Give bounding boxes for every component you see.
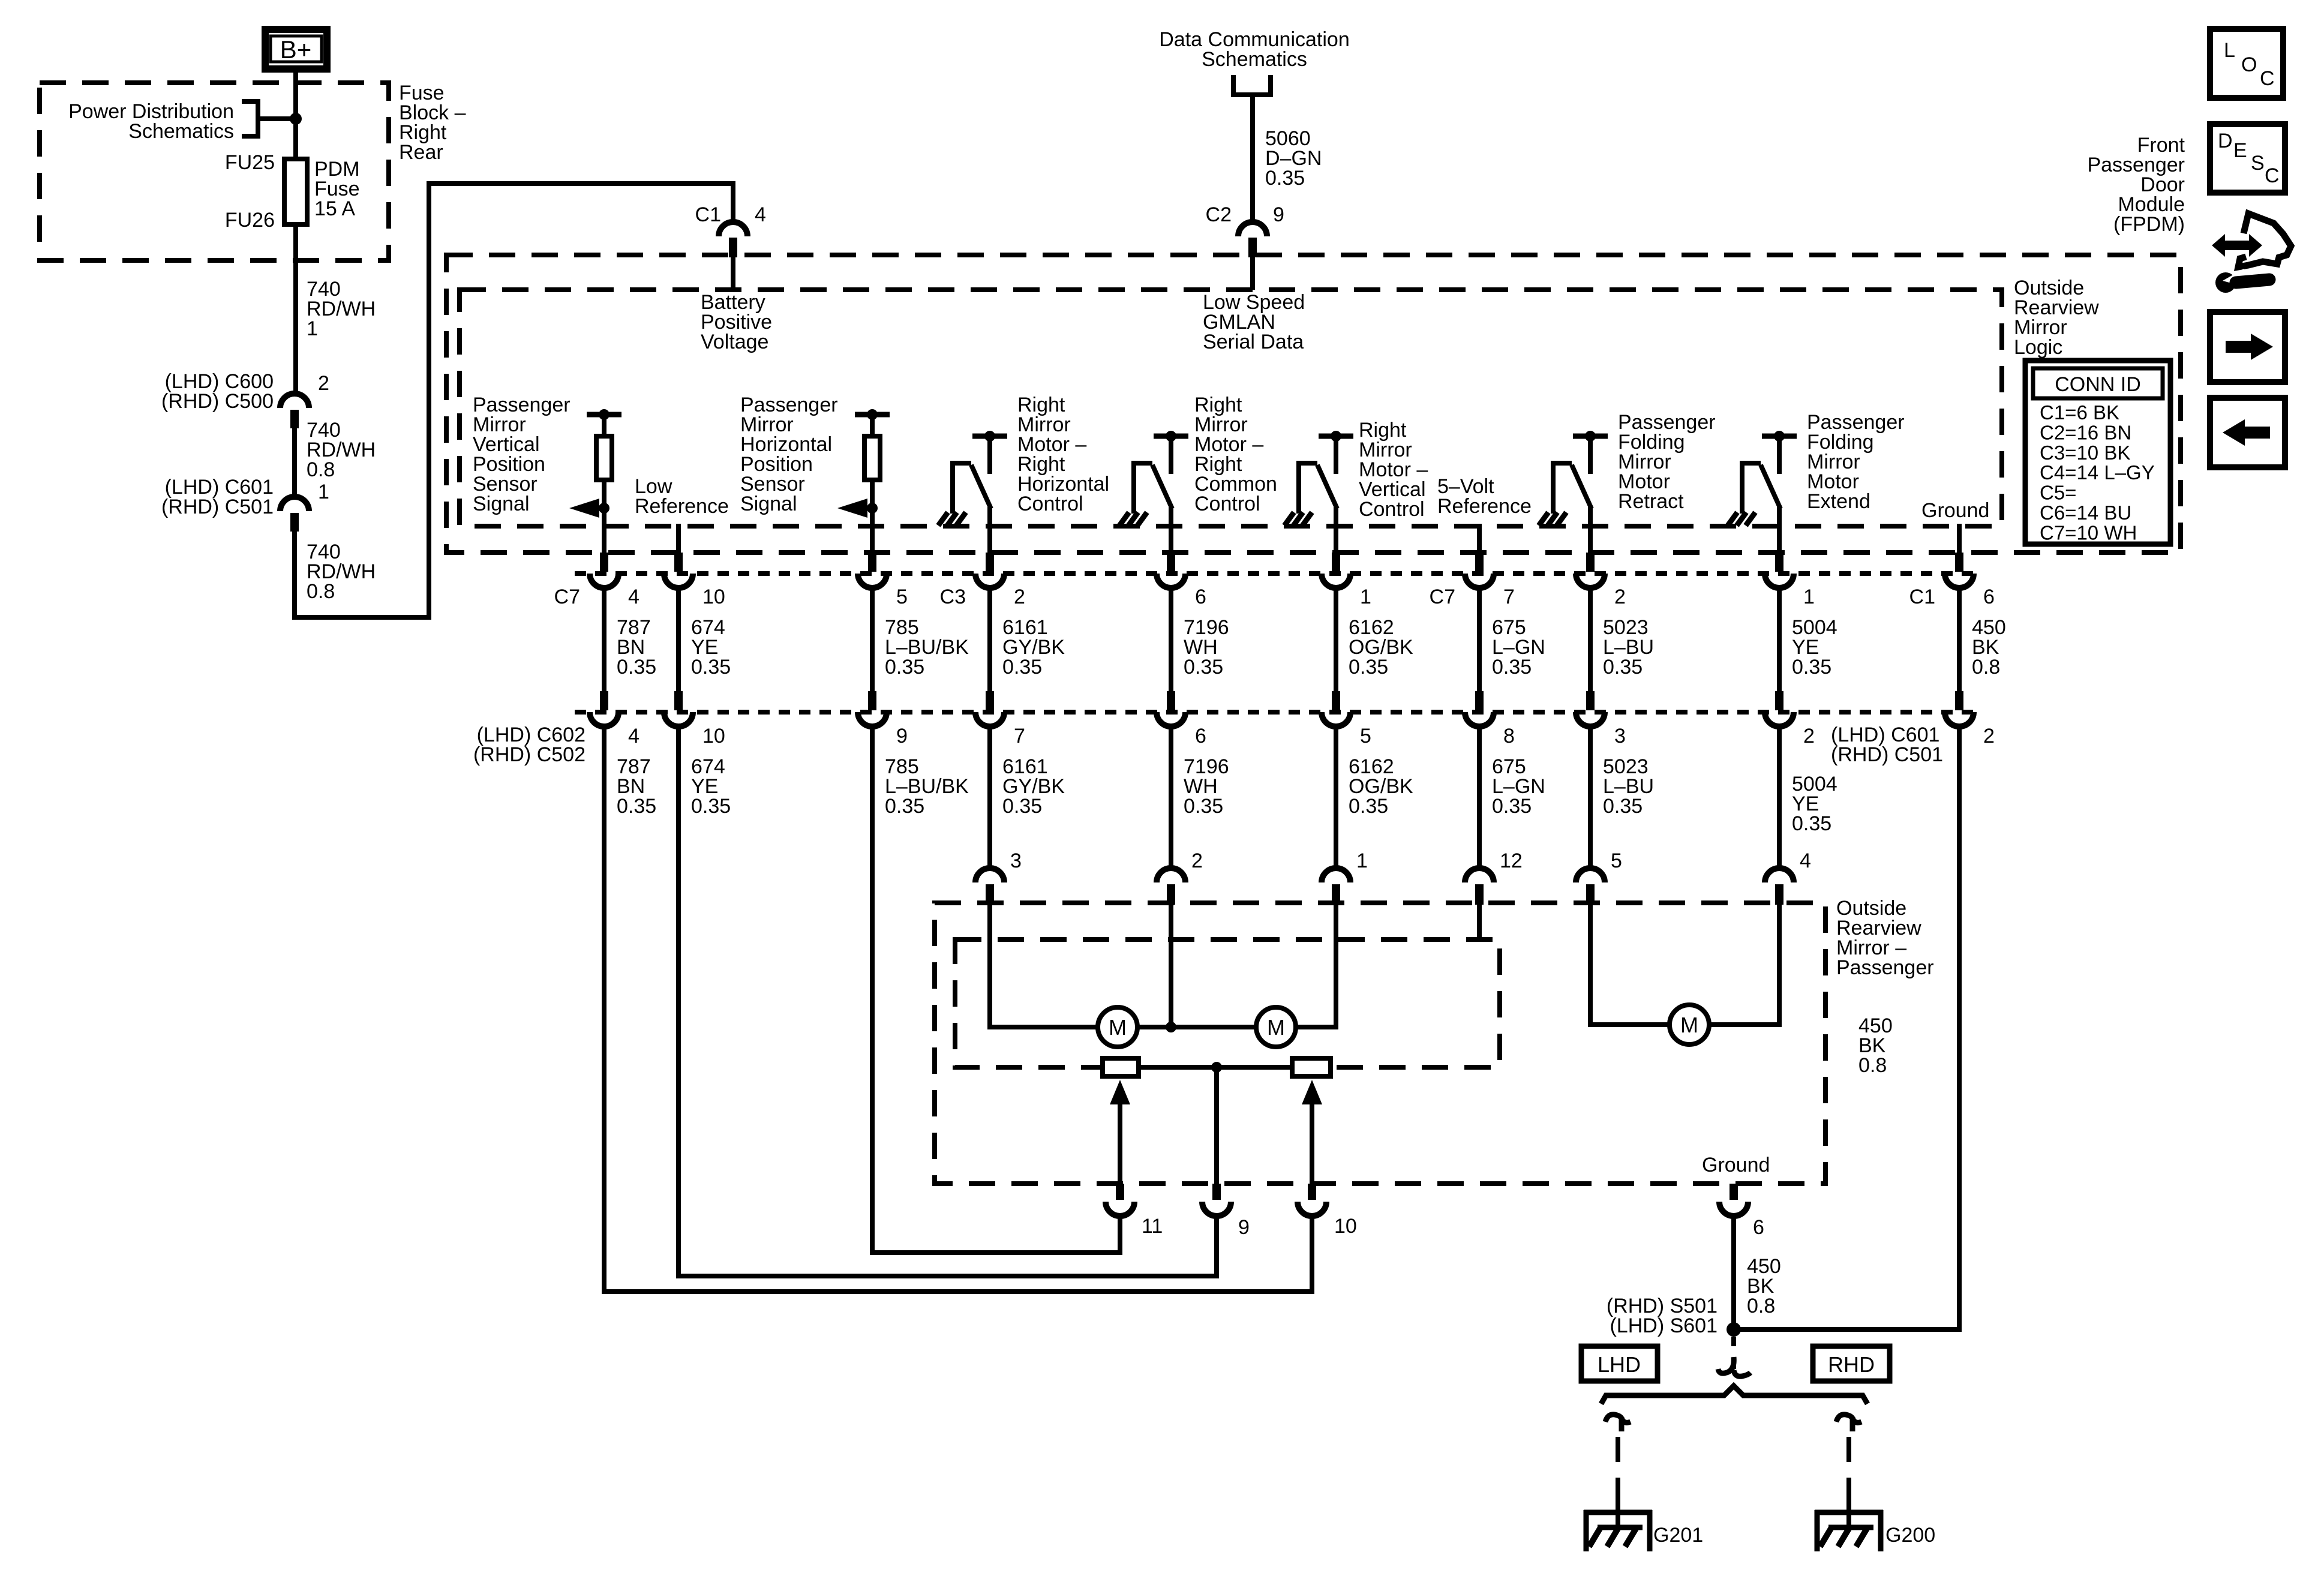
svg-text:3: 3 <box>1010 849 1022 872</box>
svg-text:0.35: 0.35 <box>617 656 656 679</box>
mirror connector pin 11 <box>1116 1184 1124 1200</box>
wire col5 row2 to mirror connector <box>1169 727 1173 869</box>
mirror connector pin 2 col5 <box>1157 868 1185 882</box>
svg-text:C2=16 BN: C2=16 BN <box>2040 421 2131 443</box>
wire Ground from inner box edge <box>1957 524 1962 553</box>
wire C601 down, right and up to FPDM C1 pin 4 <box>295 184 733 617</box>
mirror connector pin 12 col7 <box>1465 868 1494 882</box>
wire pin3 to horizontal motor M1 <box>990 905 1098 1027</box>
svg-text:2: 2 <box>1614 586 1626 608</box>
mirror connector pin 5 col8 <box>1576 868 1605 882</box>
connector row2 pin 6 col5 <box>1167 691 1175 710</box>
wire switch col8 to module edge <box>1588 507 1593 553</box>
svg-text:5: 5 <box>1611 849 1622 872</box>
wire pin12 5-volt into sensor box <box>1477 905 1482 939</box>
wire C1 pin6 450 BK down to C601 pin2 <box>1957 588 1962 691</box>
svg-text:C: C <box>2260 67 2275 90</box>
svg-text:0.8: 0.8 <box>1858 1054 1887 1077</box>
svg-text:C2: C2 <box>1206 203 1232 226</box>
svg-text:11: 11 <box>1142 1215 1163 1238</box>
svg-text:Schematics: Schematics <box>128 120 234 143</box>
connector row2 pin 2 col9 <box>1775 691 1783 710</box>
svg-text:6: 6 <box>1195 725 1206 748</box>
mirror connector pin 3 col4 <box>975 868 1004 882</box>
svg-text:1: 1 <box>318 481 329 503</box>
svg-text:6: 6 <box>1195 586 1206 608</box>
svg-text:(RHD) C500: (RHD) C500 <box>161 390 274 413</box>
wiper arrow pin10 <box>1310 1101 1314 1184</box>
svg-text:(FPDM): (FPDM) <box>2113 213 2185 236</box>
connector row2 pin 3 col8 <box>1586 691 1595 710</box>
svg-text:0.35: 0.35 <box>1603 656 1643 679</box>
svg-text:Signal: Signal <box>740 493 797 515</box>
svg-text:0.8: 0.8 <box>307 458 335 481</box>
connector row1 pin 4 col1 with wire label 787 BN 0.35 <box>600 553 608 572</box>
mirror inner dashed box <box>955 939 1500 1067</box>
switch driver Passenger Folding Mirror Motor Retract (col8) <box>1573 434 1608 439</box>
svg-text:3: 3 <box>1614 725 1626 748</box>
sensor Passenger Mirror Horizontal Position Sensor (col3) <box>855 412 890 418</box>
svg-text:C4=14 L–GY: C4=14 L–GY <box>2040 461 2155 484</box>
svg-text:6: 6 <box>1983 586 1995 608</box>
svg-text:Retract: Retract <box>1618 490 1684 513</box>
potentiometer box horizontal sensor <box>1103 1058 1139 1076</box>
RHD option box <box>1813 1346 1890 1381</box>
svg-text:1: 1 <box>1360 586 1371 608</box>
sensor Passenger Mirror Vertical Position Sensor (col1) <box>587 412 621 418</box>
svg-text:C1=6 BK: C1=6 BK <box>2040 401 2119 424</box>
svg-text:10: 10 <box>1334 1215 1357 1238</box>
motor M1 horizontal <box>1098 1007 1137 1047</box>
wire col3 785 L-BU/BK down <box>872 727 1120 1253</box>
svg-text:M: M <box>1267 1015 1285 1040</box>
dashed wire below splice <box>1731 1337 1736 1369</box>
bracket Data Communication Schematics <box>1233 75 1271 95</box>
connector row1 pin 1 col9 with wire label 5004 YE 0.35 <box>1775 553 1783 572</box>
wire pin5 col8 to motor M3 <box>1590 905 1670 1025</box>
svg-text:7: 7 <box>1014 725 1025 748</box>
switch driver Right Mirror Motor Right Common Control (col5) <box>1154 434 1188 439</box>
wire col8 row2 to mirror connector <box>1588 727 1593 869</box>
wire potentiometer common <box>1139 1065 1292 1070</box>
svg-text:6: 6 <box>1753 1216 1764 1239</box>
wire col1 787 BN down <box>604 727 1312 1292</box>
switch driver Right Mirror Motor Right Horizontal Control (col4) <box>972 434 1007 439</box>
svg-text:E: E <box>2233 139 2247 162</box>
dashed drop to G201 <box>1616 1437 1620 1509</box>
wire M3 to pin4 col9 <box>1709 905 1779 1025</box>
svg-text:4: 4 <box>1800 849 1811 872</box>
potentiometer box vertical sensor <box>1292 1058 1331 1076</box>
selection brace LHD/RHD <box>1601 1386 1867 1404</box>
wiper arrow pin11 <box>1118 1101 1122 1184</box>
svg-text:M: M <box>1680 1013 1698 1037</box>
wire switch col9 to module edge <box>1777 507 1782 553</box>
LHD option box <box>1581 1346 1658 1381</box>
svg-text:2: 2 <box>1803 725 1815 748</box>
connector row2 pin 5 col6 <box>1332 691 1340 710</box>
svg-text:Rear: Rear <box>399 141 443 164</box>
wire serial data to C2 pin 9 <box>1250 95 1255 223</box>
svg-text:5: 5 <box>1360 725 1371 748</box>
mirror connector pin 1 col6 <box>1322 868 1350 882</box>
wire sensor common to pin9 <box>1214 1067 1219 1184</box>
svg-text:RHD: RHD <box>1828 1352 1875 1377</box>
svg-text:15 A: 15 A <box>314 197 355 220</box>
svg-text:D: D <box>2218 130 2233 152</box>
wire C2 pin 9 into module <box>1250 257 1255 290</box>
wire fuse to connector C600 <box>293 224 298 394</box>
connector row1 pin 6 col5 with wire label 7196 WH 0.35 <box>1167 553 1175 572</box>
svg-text:C7: C7 <box>554 586 580 608</box>
wire col9 row2 to mirror connector <box>1777 727 1782 869</box>
connector row1 pin 1 col6 with wire label 6162 OG/BK 0.35 <box>1332 553 1340 572</box>
svg-text:Extend: Extend <box>1807 490 1870 513</box>
svg-text:C7=10 WH: C7=10 WH <box>2040 521 2137 544</box>
mirror connector pin 6 ground <box>1730 1184 1738 1200</box>
wire col4 row2 to mirror connector <box>987 727 992 869</box>
mirror connector pin 10 <box>1308 1184 1316 1200</box>
svg-text:C7: C7 <box>1430 586 1455 608</box>
svg-text:10: 10 <box>702 725 725 748</box>
wire C600 to C601 <box>292 428 297 497</box>
wire switch col4 to module edge <box>987 507 992 553</box>
connector row1 pin 10 col2 with wire label 674 YE 0.35 <box>674 553 683 572</box>
svg-text:0.35: 0.35 <box>691 795 731 818</box>
node junction on B+ feed <box>290 113 302 125</box>
Outside Rearview Mirror - Passenger dashed box <box>935 903 1825 1184</box>
svg-text:5: 5 <box>896 586 908 608</box>
wire col6 row2 to mirror connector <box>1334 727 1338 869</box>
splice S501/S601 <box>1727 1322 1741 1337</box>
svg-text:0.35: 0.35 <box>1792 812 1831 835</box>
connector row2 pin 7 col4 <box>986 691 994 710</box>
connector row1 pin 6 col10 with wire label 450 BK 0.8 <box>1955 553 1963 572</box>
svg-text:Reference: Reference <box>1437 495 1532 518</box>
svg-text:0.35: 0.35 <box>1492 795 1532 818</box>
svg-text:0.8: 0.8 <box>1747 1295 1775 1317</box>
wire pin2 to junction <box>1169 905 1173 1027</box>
connector row2 pin 8 col7 <box>1475 691 1484 710</box>
svg-text:0.35: 0.35 <box>1792 656 1831 679</box>
svg-text:0.35: 0.35 <box>1002 795 1042 818</box>
svg-text:9: 9 <box>896 725 908 748</box>
svg-text:LHD: LHD <box>1598 1352 1641 1377</box>
connector row2 pin 4 col1 <box>600 691 608 710</box>
svg-text:Signal: Signal <box>473 493 530 515</box>
svg-text:0.8: 0.8 <box>1972 656 2000 679</box>
connector C600/C500 pin 2 <box>280 394 309 408</box>
wire 5-Volt Reference from inner box edge <box>1477 524 1482 553</box>
svg-text:Control: Control <box>1359 498 1425 521</box>
wire pin 9 down <box>1214 1216 1219 1278</box>
svg-text:L: L <box>2224 39 2235 62</box>
svg-text:7: 7 <box>1503 586 1515 608</box>
svg-text:B+: B+ <box>280 35 312 64</box>
wire B+ to fuse FU25 <box>293 72 298 160</box>
svg-text:Control: Control <box>1194 493 1260 515</box>
svg-text:Logic: Logic <box>2014 336 2062 359</box>
B+ battery positive voltage symbol <box>265 29 327 69</box>
svg-text:Ground: Ground <box>1702 1154 1770 1176</box>
ground G200 <box>1815 1510 1883 1515</box>
svg-text:4: 4 <box>628 586 639 608</box>
mirror connector pin 4 col9 <box>1765 868 1794 882</box>
svg-text:1: 1 <box>307 317 318 340</box>
svg-text:9: 9 <box>1273 203 1284 226</box>
FPDM inner dashed box <box>460 290 2002 526</box>
connector row 2 dotted line <box>575 710 1975 715</box>
svg-text:0.35: 0.35 <box>1184 795 1223 818</box>
svg-text:0.35: 0.35 <box>691 656 731 679</box>
svg-text:0.35: 0.35 <box>1265 167 1305 190</box>
node junction pin2 wire <box>1166 1022 1176 1032</box>
svg-text:8: 8 <box>1503 725 1515 748</box>
wire sensor col3 to module edge <box>870 508 875 553</box>
wire col7 row2 to mirror connector <box>1477 727 1482 869</box>
svg-text:4: 4 <box>628 725 639 748</box>
svg-text:Ground: Ground <box>1921 499 1989 522</box>
wire 450 BK col10 long run to splice <box>1734 727 1959 1329</box>
CONN ID table <box>2025 361 2170 544</box>
svg-text:(RHD) C502: (RHD) C502 <box>473 743 585 766</box>
connector row1 pin 2 col8 with wire label 5023 L–BU 0.35 <box>1586 553 1595 572</box>
wire Low Reference from inner box edge <box>676 524 681 553</box>
connector row1 pin 7 col7 with wire label 675 L–GN 0.35 <box>1475 553 1484 572</box>
svg-text:9: 9 <box>1238 1216 1250 1239</box>
connector row1 pin 2 col4 with wire label 6161 GY/BK 0.35 <box>986 553 994 572</box>
svg-text:C1: C1 <box>1909 586 1935 608</box>
svg-text:0.35: 0.35 <box>617 795 656 818</box>
svg-text:FU26: FU26 <box>225 209 275 232</box>
svg-text:2: 2 <box>318 372 329 395</box>
svg-text:(RHD) C501: (RHD) C501 <box>161 496 274 518</box>
icon LOC box <box>2210 29 2283 98</box>
connector row2 pin 10 col2 <box>674 691 683 710</box>
svg-text:2: 2 <box>1191 849 1203 872</box>
svg-text:2: 2 <box>1983 725 1995 748</box>
svg-text:4: 4 <box>755 203 766 226</box>
svg-text:2: 2 <box>1014 586 1025 608</box>
switch driver Passenger Folding Mirror Motor Extend (col9) <box>1762 434 1797 439</box>
bracket to Power Distribution Schematics <box>242 101 258 136</box>
fuse PDM Fuse 15 A (FU25/FU26) <box>284 159 307 224</box>
svg-text:0.8: 0.8 <box>307 580 335 603</box>
svg-text:FU25: FU25 <box>225 151 275 174</box>
svg-text:O: O <box>2241 53 2257 76</box>
svg-text:0.35: 0.35 <box>1349 795 1388 818</box>
ground G201 <box>1584 1510 1652 1515</box>
svg-text:(LHD) S601: (LHD) S601 <box>1610 1314 1718 1337</box>
svg-text:Reference: Reference <box>635 495 729 518</box>
wire continuation curl below splice <box>1718 1357 1750 1376</box>
svg-text:C5=: C5= <box>2040 482 2076 504</box>
connector C2 pin 9 at FPDM <box>1238 222 1267 236</box>
wire pin 11 down <box>1118 1216 1122 1255</box>
harness curl left branch <box>1605 1415 1631 1431</box>
svg-text:12: 12 <box>1500 849 1523 872</box>
icon right arrow box <box>2210 312 2285 382</box>
svg-text:0.35: 0.35 <box>1492 656 1532 679</box>
svg-text:Serial Data: Serial Data <box>1203 331 1304 353</box>
connector C601/C501 pin 1 <box>280 497 309 511</box>
motor M3 folding mirror <box>1670 1005 1709 1044</box>
wire sensor col1 to module edge <box>602 508 606 553</box>
svg-text:0.35: 0.35 <box>1002 656 1042 679</box>
connector row2 pin 2 col10 <box>1955 691 1963 710</box>
svg-text:0.35: 0.35 <box>1603 795 1643 818</box>
svg-text:Control: Control <box>1017 493 1083 515</box>
icon DESC box <box>2210 124 2285 193</box>
svg-text:Schematics: Schematics <box>1202 48 1307 71</box>
svg-text:G200: G200 <box>1885 1524 1935 1547</box>
connector row2 pin 9 col3 <box>868 691 876 710</box>
connector row1 pin 5 col3 with wire label 785 L–BU/BK 0.35 <box>868 553 876 572</box>
icon double arrow with panel outline and wrench <box>2212 234 2262 257</box>
switch driver Right Mirror Motor Vertical Control (col6) <box>1319 434 1353 439</box>
svg-text:S: S <box>2251 152 2265 175</box>
svg-text:1: 1 <box>1803 586 1815 608</box>
svg-text:C: C <box>2265 164 2280 187</box>
harness curl right branch <box>1836 1415 1861 1431</box>
svg-text:10: 10 <box>702 586 725 608</box>
svg-text:C1: C1 <box>695 203 721 226</box>
wire C1 pin 4 into module <box>731 257 735 290</box>
motor M2 vertical <box>1256 1007 1296 1047</box>
icon left arrow box <box>2210 398 2285 467</box>
svg-text:C3=10 BK: C3=10 BK <box>2040 442 2130 464</box>
wire pin 6 ground to splice <box>1731 1216 1736 1329</box>
mirror connector pin 9 <box>1212 1184 1221 1200</box>
svg-text:M: M <box>1109 1015 1127 1040</box>
svg-text:0.35: 0.35 <box>1184 656 1223 679</box>
svg-text:1: 1 <box>1356 849 1368 872</box>
wire switch col5 to module edge <box>1169 507 1173 553</box>
svg-text:C6=14 BU: C6=14 BU <box>2040 502 2131 524</box>
connector C1 pin 4 at FPDM <box>719 222 747 236</box>
svg-text:0.35: 0.35 <box>885 795 924 818</box>
svg-text:C3: C3 <box>940 586 966 608</box>
wire pin 10 down <box>1310 1216 1314 1294</box>
svg-text:Voltage: Voltage <box>701 331 768 353</box>
FPDM outer dashed box <box>446 255 2181 553</box>
wire M1 to M2 with junction <box>1137 1025 1256 1029</box>
svg-text:G201: G201 <box>1653 1524 1703 1547</box>
fuse block dashed box <box>40 83 389 260</box>
wire M2 to pin1 <box>1296 905 1336 1027</box>
svg-text:Passenger: Passenger <box>1836 956 1934 979</box>
node junction sensor common <box>1211 1062 1222 1073</box>
wire switch col6 to module edge <box>1334 507 1338 553</box>
svg-text:CONN ID: CONN ID <box>2055 373 2141 396</box>
svg-text:0.35: 0.35 <box>885 656 924 679</box>
svg-text:0.35: 0.35 <box>1349 656 1388 679</box>
connector row 1 dotted line <box>575 571 1975 576</box>
dashed drop to G200 <box>1846 1437 1851 1509</box>
wire col2 674 YE down <box>678 727 1217 1276</box>
svg-text:(RHD) C501: (RHD) C501 <box>1831 743 1943 766</box>
